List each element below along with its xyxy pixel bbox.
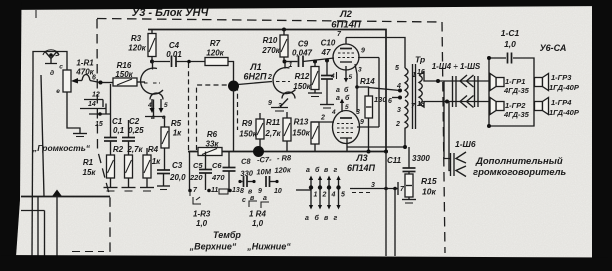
svg-text:R16: R16 xyxy=(117,61,132,70)
wire: pot bottom to chassis ground xyxy=(67,92,80,133)
svg-text:а: а xyxy=(305,215,309,222)
wire: L1a cathode node to R5 xyxy=(145,116,165,118)
speaker box U6-SA outline xyxy=(489,58,534,126)
node: terminal 6 junction dot xyxy=(99,81,103,85)
dashed stub near terminal 3 xyxy=(352,192,371,194)
svg-text:9: 9 xyxy=(361,48,365,55)
svg-text:г: г xyxy=(334,167,338,174)
terminal 15 wire to C1 xyxy=(89,84,111,137)
wire: R10 bottom to plate node xyxy=(283,57,285,62)
node: dot top-left of box xyxy=(487,56,491,60)
svg-text:130: 130 xyxy=(374,95,387,104)
heater arrows above L3 xyxy=(331,99,364,127)
svg-text:1-С1: 1-С1 xyxy=(501,28,520,38)
svg-text:с: с xyxy=(242,197,246,204)
boundary: dashed shield line at x188 xyxy=(188,63,190,151)
terminal 11 with dot xyxy=(207,187,218,194)
svg-text:R14: R14 xyxy=(360,77,375,86)
capacitor C1 0.1 xyxy=(104,117,125,155)
svg-text:9: 9 xyxy=(268,100,272,107)
svg-text:R15: R15 xyxy=(421,176,437,186)
potentiometer 1-R1 volume xyxy=(50,64,71,96)
wire: L3 cathode bottom wire to C11 node xyxy=(347,146,405,148)
frame: left black bar xyxy=(0,0,22,271)
triode L1a envelope xyxy=(141,62,163,117)
node: dot at R12 top xyxy=(313,60,317,64)
wire: secondary top to speaker row1 xyxy=(419,72,489,81)
svg-text:2: 2 xyxy=(322,192,327,199)
capacitor C2 0.25 xyxy=(122,117,144,155)
node: big junction blob B on bus xyxy=(253,146,264,157)
node: L1a plate junction dot xyxy=(150,60,154,64)
boundary: dashed tone-unit box xyxy=(197,85,238,150)
svg-text:15: 15 xyxy=(95,121,103,128)
svg-text:1-ГР3: 1-ГР3 xyxy=(551,73,572,82)
wire: grid wire of L3 xyxy=(311,121,334,123)
svg-text:9: 9 xyxy=(360,119,364,126)
node: dot on pin3 wire xyxy=(355,85,359,89)
svg-text:г: г xyxy=(334,215,338,222)
svg-text:Тр: Тр xyxy=(415,55,425,65)
svg-text:3: 3 xyxy=(356,109,360,116)
wire: terminal 6 stub to transformer tap xyxy=(392,97,400,99)
wire: bus left stub to C5 chain xyxy=(189,152,191,191)
svg-text:5: 5 xyxy=(395,65,399,72)
wire: secondary bottom to speaker row2 xyxy=(419,102,489,108)
svg-text:2,7к: 2,7к xyxy=(264,129,281,138)
svg-text:R9: R9 xyxy=(242,119,253,128)
svg-text:С11: С11 xyxy=(387,156,402,165)
switch wafer columns a b v g xyxy=(296,166,345,222)
svg-text:1: 1 xyxy=(289,62,293,69)
svg-text:„Громкость“: „Громкость“ xyxy=(32,143,91,153)
svg-text:3: 3 xyxy=(371,182,375,189)
resistor R13 150k xyxy=(292,118,319,152)
wire: L-shaped stub bottom left xyxy=(21,210,45,212)
wire: vertical drop from bus x38 xyxy=(37,197,39,257)
svg-text:150к: 150к xyxy=(293,82,311,91)
svg-text:4: 4 xyxy=(331,192,336,199)
node: dot at C10 branch xyxy=(325,59,329,63)
resistor R2 xyxy=(104,145,124,191)
wire: main ground/signal bus xyxy=(188,151,388,153)
boundary: dashed left edge of U3 block xyxy=(97,19,110,255)
node: dot rail drop on bus xyxy=(384,150,388,154)
resistor R15 10k xyxy=(402,172,437,204)
svg-text:R12: R12 xyxy=(295,72,310,81)
capacitor C7 switch contact xyxy=(266,176,279,187)
svg-text:1к: 1к xyxy=(173,129,182,138)
svg-text:1ГД-40Р: 1ГД-40Р xyxy=(549,83,580,92)
svg-text:3: 3 xyxy=(397,107,401,114)
svg-text:б: б xyxy=(345,94,350,102)
svg-text:5: 5 xyxy=(349,74,353,81)
wire: left ground bus xyxy=(21,196,110,198)
resistor 2.7k (middle) xyxy=(122,145,144,191)
wire: drop to 1-Sh6 conductor 2 xyxy=(449,102,450,171)
bracket contact under 7 xyxy=(193,197,201,204)
svg-text:1,0: 1,0 xyxy=(196,219,208,228)
wire: primary bottom to C11 node xyxy=(404,128,406,147)
svg-text:в: в xyxy=(151,114,155,121)
node: dot x395 on terminal wire xyxy=(393,187,397,191)
svg-text:-С7-: -С7- xyxy=(257,155,272,165)
wire: L3 screen pin9 to vertical xyxy=(357,126,379,128)
svg-text:Л2: Л2 xyxy=(339,9,353,20)
svg-text:3: 3 xyxy=(358,67,362,74)
svg-text:8: 8 xyxy=(240,188,244,195)
ground: chassis under pot xyxy=(73,134,87,137)
resistor R5 1k cathode xyxy=(161,117,182,171)
resistor R7 120k xyxy=(205,39,228,66)
node: dot bottom-left of box xyxy=(487,124,491,128)
loudspeaker 1-GR2 xyxy=(490,98,504,115)
wire: rail to R10 xyxy=(283,30,285,36)
svg-text:С4: С4 xyxy=(169,41,180,50)
svg-text:1: 1 xyxy=(314,192,318,199)
svg-text:а: а xyxy=(336,95,340,102)
wire: big node to L1b grid xyxy=(238,82,272,85)
terminal stub 14 xyxy=(80,101,106,114)
svg-text:е: е xyxy=(56,88,60,95)
svg-text:4ГД-35: 4ГД-35 xyxy=(503,86,530,95)
svg-text:1-Ш4 ÷ 1-ШS: 1-Ш4 ÷ 1-ШS xyxy=(432,62,481,71)
svg-text:R13: R13 xyxy=(294,118,309,127)
node: L1b plate junction xyxy=(283,60,287,64)
wire: node to C9 xyxy=(285,61,298,63)
chevrons row1 xyxy=(460,75,474,87)
node: junction triangle on left ground bus xyxy=(52,190,63,198)
resistor R3 120k xyxy=(128,34,156,57)
capacitor C6 470 xyxy=(211,152,236,191)
svg-text:13: 13 xyxy=(232,187,240,194)
svg-text:4ГД-35: 4ГД-35 xyxy=(503,110,530,119)
svg-text:1-R1: 1-R1 xyxy=(76,59,94,68)
wire: screen bus vertical x379 xyxy=(378,58,380,128)
svg-text:1-R3: 1-R3 xyxy=(193,210,211,219)
svg-text:5: 5 xyxy=(164,102,168,109)
svg-text:2,7к: 2,7к xyxy=(126,145,143,154)
svg-text:10М: 10М xyxy=(256,167,272,177)
svg-text:12: 12 xyxy=(92,92,100,99)
capacitor C5 220 xyxy=(189,152,212,191)
labels: C8 C7 R8 row xyxy=(240,153,293,178)
label: resistor R1 15k xyxy=(83,158,97,177)
connector bars pair B xyxy=(475,76,479,107)
wire: vertical drop from triangle x57 xyxy=(56,197,58,257)
bracket contacts xyxy=(249,201,257,207)
svg-text:4: 4 xyxy=(331,109,336,116)
terminal 13 with dot xyxy=(228,187,240,194)
resistor R12 150k xyxy=(293,62,322,97)
svg-text:R1: R1 xyxy=(83,158,94,167)
svg-text:1,0: 1,0 xyxy=(252,219,264,228)
fork arrows of 1-Sh6 xyxy=(456,152,466,177)
wire: C9 to L2 grid with junctions xyxy=(303,58,334,62)
wire: R7 to corner down to big node xyxy=(228,62,234,82)
svg-text:С3: С3 xyxy=(172,161,183,170)
transformer Tr xyxy=(395,55,425,130)
capacitor C4 0.01 xyxy=(166,41,182,67)
svg-text:14: 14 xyxy=(88,101,96,108)
svg-text:Л1: Л1 xyxy=(249,62,261,72)
triode L1b envelope xyxy=(273,62,295,108)
svg-text:Тембр: Тембр xyxy=(213,230,241,240)
node: dot at C11 top xyxy=(403,145,407,149)
wire: rail to R3 top xyxy=(151,30,153,34)
capacitor C10 47 to ground xyxy=(320,39,336,109)
svg-text:б: б xyxy=(344,86,349,94)
svg-text:У6-СА: У6-СА xyxy=(540,43,567,53)
svg-text:1 R4: 1 R4 xyxy=(249,210,266,219)
wire: C4 to R7 xyxy=(176,61,205,63)
connector 1-Sh6 bars xyxy=(451,153,455,176)
node: dot row2 xyxy=(445,100,449,104)
svg-text:120к: 120к xyxy=(274,165,292,175)
capacitor C9 0.047 xyxy=(292,40,313,68)
wire: L2 screen pin9 to vertical xyxy=(358,57,379,59)
svg-text:R3: R3 xyxy=(131,34,142,43)
svg-text:3300: 3300 xyxy=(412,154,430,163)
frame: bottom black bar xyxy=(0,255,612,271)
resistor R6 33k on bus xyxy=(198,130,222,156)
svg-text:5: 5 xyxy=(345,104,349,111)
svg-text:3: 3 xyxy=(278,103,282,110)
svg-text:9: 9 xyxy=(258,188,262,195)
boundary: dashed right edge of U3 block xyxy=(442,22,445,253)
wire: second conductor x41 xyxy=(41,75,44,197)
svg-text:150к: 150к xyxy=(239,130,257,139)
frame: right black bar xyxy=(592,0,612,271)
switch link between 11 and 13 xyxy=(219,189,228,194)
svg-text:4: 4 xyxy=(147,102,152,109)
svg-text:R11: R11 xyxy=(266,118,281,127)
svg-text:2: 2 xyxy=(320,115,325,122)
svg-text:а: а xyxy=(336,87,340,94)
resistor R14 130 xyxy=(357,77,387,152)
node: dot row1 xyxy=(436,79,440,83)
svg-text:1-ГР2: 1-ГР2 xyxy=(505,101,526,110)
svg-text:220: 220 xyxy=(189,173,203,182)
loudspeaker 1-GR3 xyxy=(535,74,549,91)
wire: shielded pair vertical runs from pickup xyxy=(32,72,33,256)
svg-text:6П14П: 6П14П xyxy=(347,163,375,173)
svg-text:470: 470 xyxy=(211,173,225,182)
svg-text:б: б xyxy=(315,214,320,222)
svg-text:10: 10 xyxy=(274,188,282,195)
svg-text:Дополнительный: Дополнительный xyxy=(475,156,563,167)
svg-text:1ГД-40Р: 1ГД-40Р xyxy=(549,108,580,117)
svg-text:R4: R4 xyxy=(148,145,159,154)
dashes above bottom frame xyxy=(72,251,104,253)
svg-text:270к: 270к xyxy=(261,46,280,55)
svg-text:120к: 120к xyxy=(128,44,146,53)
svg-text:4: 4 xyxy=(396,83,401,90)
svg-text:С1: С1 xyxy=(112,117,123,126)
svg-text:47: 47 xyxy=(321,48,331,57)
svg-text:„Нижние“: „Нижние“ xyxy=(246,242,291,252)
resistor R10 270k xyxy=(261,35,288,57)
node: rail dot at R10 top xyxy=(282,28,286,32)
svg-text:0,047: 0,047 xyxy=(292,49,313,58)
svg-text:R10: R10 xyxy=(263,36,278,45)
svg-text:1-Ш6: 1-Ш6 xyxy=(455,139,476,149)
resistor R4 1k xyxy=(140,145,161,191)
svg-text:R7: R7 xyxy=(210,39,221,48)
svg-text:2: 2 xyxy=(395,121,400,128)
svg-text:6: 6 xyxy=(388,98,392,105)
svg-text:4: 4 xyxy=(330,73,335,80)
connector bars pair A xyxy=(453,76,457,107)
svg-text:11: 11 xyxy=(211,187,218,194)
heater arrows pins 4,5 of L1a xyxy=(147,99,168,121)
svg-text:С6: С6 xyxy=(212,161,222,170)
loudspeaker 1-GR1 xyxy=(490,74,504,91)
resistor R9 150k xyxy=(239,113,264,152)
wire: bottom terminal wire with 3 and 7 xyxy=(350,188,398,190)
svg-text:С2: С2 xyxy=(129,117,140,126)
svg-text:1,0: 1,0 xyxy=(504,39,516,49)
svg-text:- R8: - R8 xyxy=(277,153,292,163)
svg-text:б: б xyxy=(315,166,320,174)
pickup input symbol (sound pickup) top-left xyxy=(33,10,67,72)
wire: wiper arrow into pot with hop over boundary xyxy=(71,75,113,84)
svg-text:1-ГР4: 1-ГР4 xyxy=(551,98,572,107)
svg-text:5: 5 xyxy=(341,192,345,199)
chevrons row2 xyxy=(460,96,474,108)
wire: plate node to C4 xyxy=(152,61,170,63)
svg-text:R6: R6 xyxy=(207,130,218,139)
svg-text:0,1: 0,1 xyxy=(113,126,125,135)
svg-text:2: 2 xyxy=(267,74,272,81)
wire: vertical drop x386 to bottom xyxy=(385,152,387,256)
svg-text:1: 1 xyxy=(412,72,416,79)
svg-text:1-ГР1: 1-ГР1 xyxy=(505,77,525,86)
svg-text:С5: С5 xyxy=(193,161,203,170)
wire: tap wire to transformer with dot xyxy=(369,88,401,91)
node: dot at x189 xyxy=(187,60,191,64)
svg-text:Л3: Л3 xyxy=(355,153,367,163)
ground: L1b cathode chassis xyxy=(271,108,288,112)
heater arrow and pins below L2 xyxy=(330,64,362,83)
svg-text:С8: С8 xyxy=(241,157,252,166)
svg-text:150к: 150к xyxy=(115,70,133,79)
svg-text:а: а xyxy=(306,167,310,174)
svg-text:„Верхние“: „Верхние“ xyxy=(189,242,237,252)
terminal 7 tick xyxy=(397,182,399,195)
node: dot x386 on terminal wire xyxy=(384,187,388,191)
svg-text:150к: 150к xyxy=(292,129,310,138)
svg-text:1к: 1к xyxy=(152,157,161,166)
svg-text:6: 6 xyxy=(92,75,96,82)
svg-text:10к: 10к xyxy=(422,187,436,197)
loudspeaker 1-GR4 xyxy=(535,98,549,115)
boundary: dashed top edge of U3 block xyxy=(97,19,442,23)
svg-text:а: а xyxy=(263,195,267,202)
capacitor C8 symbol xyxy=(238,176,255,187)
resistor R11 2.7k xyxy=(264,112,291,152)
capacitor 1-C1 in top wire xyxy=(508,53,512,64)
node: big junction blob A xyxy=(228,81,239,92)
svg-text:15к: 15к xyxy=(83,168,97,177)
svg-text:С9: С9 xyxy=(298,40,309,49)
svg-text:с: с xyxy=(59,64,63,71)
wire: R16 to L1a grid xyxy=(137,81,145,83)
wire: big node down to bus xyxy=(233,90,235,152)
capacitor C3 20.0 xyxy=(157,161,186,190)
svg-text:0,01: 0,01 xyxy=(166,50,182,59)
wire: vertical drop x395 to bottom xyxy=(394,189,396,257)
terminal stub 12 xyxy=(84,92,103,108)
svg-text:6Н2П: 6Н2П xyxy=(244,72,268,82)
svg-text:0,25: 0,25 xyxy=(128,126,144,135)
svg-text:120к: 120к xyxy=(206,49,224,58)
frame: top black bar xyxy=(0,0,612,10)
pentode L2 6P14P envelope xyxy=(333,38,359,71)
wire: vertical drop x70 xyxy=(44,211,46,257)
node: dot R14 bottom on bus xyxy=(367,150,371,154)
terminal 7 with dot xyxy=(188,187,198,196)
svg-text:6П14П: 6П14П xyxy=(331,20,361,31)
svg-text:R5: R5 xyxy=(171,119,182,128)
resistor R16 150k xyxy=(113,61,137,86)
svg-text:д: д xyxy=(50,69,54,77)
svg-text:С10: С10 xyxy=(321,39,336,48)
capacitor C11 3300 xyxy=(387,147,430,172)
wire: L2 plate to transformer top xyxy=(346,38,405,69)
svg-text:20,0: 20,0 xyxy=(169,173,186,182)
svg-text:33к: 33к xyxy=(206,140,220,149)
pentode L3 6P14P envelope xyxy=(333,111,360,152)
wire: drop to 1-Sh6 conductor 1 xyxy=(444,81,450,159)
wire: L2 pin3 down to R14 node xyxy=(356,74,358,112)
link letters a b between L2 and L3 xyxy=(336,86,350,102)
svg-text:громкоговоритель: громкоговоритель xyxy=(473,167,566,178)
wire: B+ top rail xyxy=(148,30,386,153)
wire: R3 bottom to plate node xyxy=(151,57,153,62)
svg-text:R2: R2 xyxy=(113,145,124,154)
